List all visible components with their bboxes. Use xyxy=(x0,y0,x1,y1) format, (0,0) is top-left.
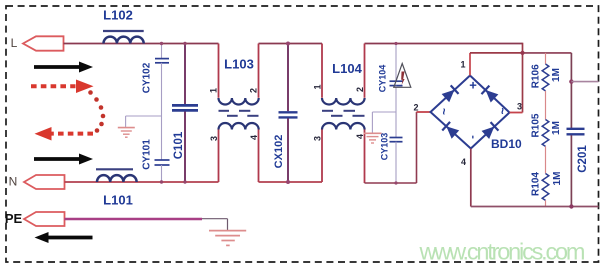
node L (input port) xyxy=(11,36,64,51)
ground (PE earth) xyxy=(209,231,246,246)
node PE (input port) xyxy=(5,211,65,226)
capacitor CX102 xyxy=(273,44,298,183)
inductor L102 xyxy=(103,8,144,44)
capacitor CY103 xyxy=(372,112,402,183)
arrow (red dashed, common-mode path) xyxy=(31,80,105,141)
resistor R104 xyxy=(530,172,563,201)
wire R104 bottom xyxy=(545,200,547,206)
wire bridge pin 4 xyxy=(470,149,472,207)
svg-text:CX102: CX102 xyxy=(273,135,285,169)
svg-text:www.cntronics.com: www.cntronics.com xyxy=(419,239,586,265)
svg-text:L104: L104 xyxy=(332,61,362,76)
arrow (black, PE return) xyxy=(35,232,93,243)
capacitor C101 xyxy=(172,44,198,183)
svg-text:CY103: CY103 xyxy=(380,133,390,161)
svg-text:4: 4 xyxy=(461,157,466,167)
svg-text:CY101: CY101 xyxy=(142,139,153,170)
svg-text:~: ~ xyxy=(437,108,451,115)
svg-text:R104: R104 xyxy=(530,172,541,196)
inductor L101 xyxy=(96,169,137,207)
svg-text:1M: 1M xyxy=(551,68,562,82)
svg-text:N: N xyxy=(9,175,18,189)
wire N rail xyxy=(65,181,323,183)
bridge rectifier BD10 xyxy=(431,76,523,152)
svg-text:4: 4 xyxy=(249,135,259,140)
wire R106-R105 xyxy=(545,91,547,120)
svg-text:4: 4 xyxy=(355,134,365,139)
common-mode choke L103 xyxy=(219,44,259,183)
svg-text:+: + xyxy=(469,78,477,93)
svg-text:2: 2 xyxy=(249,88,259,93)
svg-text:-: - xyxy=(467,135,479,139)
wire L rail xyxy=(64,43,523,113)
capacitor CY101 xyxy=(126,116,170,182)
capacitor C201 xyxy=(567,53,590,207)
svg-text:L102: L102 xyxy=(103,8,133,23)
wire R105-R104 xyxy=(545,146,547,173)
arrow (black, line current in) xyxy=(34,62,93,73)
capacitor CY104 xyxy=(378,44,403,113)
wire bridge pin 1 xyxy=(470,53,523,76)
wire DC output plus xyxy=(569,79,598,83)
svg-text:1: 1 xyxy=(313,84,323,89)
svg-text:3: 3 xyxy=(517,102,522,112)
wire DC minus bus xyxy=(471,204,599,208)
arrow (black, neutral current in) xyxy=(34,154,93,165)
svg-text:BD10: BD10 xyxy=(491,137,522,151)
wire bridge pin 3 xyxy=(510,112,523,114)
wire L104 pin4 to bridge xyxy=(365,112,431,183)
ground (CY103/CY104 midpoint) xyxy=(364,112,382,143)
wire DC plus rail xyxy=(520,51,571,55)
svg-text:1M: 1M xyxy=(552,172,563,186)
common-mode choke L104 xyxy=(322,44,365,184)
svg-text:~: ~ xyxy=(496,107,510,114)
svg-text:C201: C201 xyxy=(577,145,589,173)
wire PE xyxy=(65,219,228,230)
svg-text:L103: L103 xyxy=(224,57,254,72)
svg-text:R105: R105 xyxy=(531,113,542,137)
ground (CY101/CY102 midpoint) xyxy=(118,116,135,137)
svg-text:3: 3 xyxy=(209,136,219,141)
svg-text:CY104: CY104 xyxy=(378,65,388,93)
svg-text:L: L xyxy=(11,36,18,50)
svg-text:2: 2 xyxy=(413,103,418,113)
surge warning triangle xyxy=(394,64,411,88)
svg-text:3: 3 xyxy=(313,136,323,141)
svg-text:R106: R106 xyxy=(531,64,542,88)
junction dots on rails xyxy=(160,42,398,185)
svg-text:C101: C101 xyxy=(173,131,185,159)
svg-text:1: 1 xyxy=(460,60,465,70)
svg-text:PE: PE xyxy=(5,211,23,226)
svg-text:L101: L101 xyxy=(103,193,133,208)
svg-text:2: 2 xyxy=(355,87,365,92)
node N (input port) xyxy=(9,175,65,190)
svg-text:CY102: CY102 xyxy=(142,62,153,93)
resistor R106 xyxy=(531,53,563,91)
svg-text:1M: 1M xyxy=(551,121,562,135)
svg-text:1: 1 xyxy=(209,88,219,93)
resistor R105 xyxy=(531,113,563,146)
capacitor CY102 xyxy=(142,44,170,117)
